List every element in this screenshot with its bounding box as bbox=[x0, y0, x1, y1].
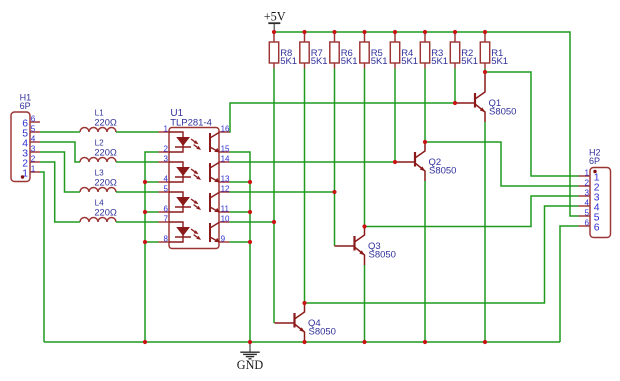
svg-text:2: 2 bbox=[164, 145, 169, 154]
junction R4/Q2 base bbox=[393, 160, 397, 164]
wire Q2 emitter to ground bus bbox=[424, 181, 426, 342]
U1 pin 1 stub bbox=[159, 131, 170, 133]
U1 channel 4 light arrows bbox=[191, 229, 201, 240]
wire L3 to U1.5 bbox=[116, 191, 159, 193]
H1 pin 1 stub bbox=[30, 171, 40, 173]
svg-text:3: 3 bbox=[31, 145, 36, 154]
U1 pin 7 stub bbox=[159, 221, 170, 223]
junction R6/Q3 base net bbox=[332, 190, 336, 194]
svg-text:S8050: S8050 bbox=[309, 327, 336, 338]
wire ground bus bbox=[44, 341, 560, 343]
H2 pin 3 stub bbox=[579, 195, 591, 197]
svg-text:1: 1 bbox=[31, 165, 36, 174]
wire U1.6 to cathode bus bbox=[145, 211, 159, 213]
wire U1.9 to emitter bus bbox=[230, 241, 251, 243]
svg-text:2: 2 bbox=[584, 179, 589, 188]
resistor R2 5K1 bbox=[450, 33, 459, 69]
transistor Q3 S8050 bbox=[335, 227, 365, 266]
junction rail-R4 bbox=[393, 30, 397, 34]
junction R2/Q1 base bbox=[453, 101, 457, 105]
junction ground bus Q1e bbox=[483, 340, 487, 344]
junction rail-R5 bbox=[362, 30, 366, 34]
svg-text:3: 3 bbox=[164, 155, 169, 164]
U1 pin 11 stub bbox=[219, 211, 230, 213]
transistor Q4 S8050 bbox=[275, 303, 305, 342]
svg-text:6: 6 bbox=[31, 115, 36, 124]
U1 channel 1 light arrows bbox=[191, 139, 201, 150]
svg-text:5K1: 5K1 bbox=[431, 56, 448, 67]
junction emitter bus pin11 bbox=[248, 210, 252, 214]
wire U1.8 to cathode bus bbox=[145, 241, 159, 243]
power +5V symbol bbox=[264, 9, 286, 32]
H1 pin 5 stub bbox=[30, 131, 40, 133]
resistor R8 5K1 bbox=[269, 33, 278, 69]
U1 pin 4 stub bbox=[159, 181, 170, 183]
U1 channel 4 phototransistor bbox=[210, 223, 220, 243]
inductor L3 220ohm bbox=[80, 188, 116, 193]
wire Q3 collector to H2 pin3 bbox=[365, 196, 579, 227]
svg-text:+5V: +5V bbox=[264, 9, 286, 23]
U1 pin 15 stub bbox=[219, 151, 230, 153]
junction cathode bus pin8 bbox=[143, 240, 147, 244]
svg-text:4: 4 bbox=[584, 199, 589, 208]
svg-text:16: 16 bbox=[221, 125, 230, 134]
connector H1 bbox=[11, 112, 30, 182]
wire R5 bottom to net bbox=[364, 69, 366, 227]
wire H1.1 to ground bus bbox=[40, 172, 44, 342]
U1 pin 10 stub bbox=[219, 221, 230, 223]
wire H1.5 to L1 bbox=[40, 131, 80, 133]
svg-text:5K1: 5K1 bbox=[311, 56, 328, 67]
wire Q4 emitter to ground bus stub bbox=[304, 341, 306, 343]
inductor L1 220ohm bbox=[80, 128, 116, 133]
wire U1.13 to emitter bus bbox=[230, 181, 251, 183]
svg-text:4: 4 bbox=[164, 175, 169, 184]
U1 pin 6 stub bbox=[159, 211, 170, 213]
svg-text:8: 8 bbox=[164, 235, 169, 244]
ground GND symbol bbox=[237, 342, 264, 372]
wire Q1 emitter to ground bus bbox=[484, 122, 486, 342]
svg-text:5K1: 5K1 bbox=[491, 56, 508, 67]
U1 channel 2 LED bbox=[169, 162, 191, 182]
wire R1 bottom to net bbox=[484, 69, 486, 73]
wire Q1 collector to H2 pin1 bbox=[485, 72, 579, 176]
svg-text:L3: L3 bbox=[95, 168, 105, 177]
svg-text:S8050: S8050 bbox=[369, 250, 396, 261]
svg-text:5K1: 5K1 bbox=[461, 56, 478, 67]
resistor R5 5K1 bbox=[360, 33, 369, 69]
resistor R3 5K1 bbox=[420, 33, 429, 69]
wire L1 to U1.1 bbox=[116, 131, 159, 133]
wire U1.14 to Q2 base pin bbox=[230, 161, 396, 163]
svg-text:L2: L2 bbox=[95, 138, 105, 147]
svg-text:5K1: 5K1 bbox=[401, 56, 418, 67]
svg-text:10: 10 bbox=[221, 215, 230, 224]
H2 pin 4 stub bbox=[579, 205, 591, 207]
svg-text:GND: GND bbox=[237, 358, 264, 372]
svg-text:TLP281-4: TLP281-4 bbox=[170, 118, 212, 129]
svg-text:11: 11 bbox=[221, 205, 230, 214]
U1 pin 9 stub bbox=[219, 241, 230, 243]
wire L4 to U1.7 bbox=[116, 221, 159, 223]
junction emitter bus pin9 bbox=[248, 240, 252, 244]
svg-text:220Ω: 220Ω bbox=[94, 207, 117, 217]
H1 pin1 marker bbox=[21, 175, 24, 178]
resistor R1 5K1 bbox=[480, 33, 489, 69]
wire H1.2 to L4 bbox=[40, 162, 80, 222]
junction rail-R3 bbox=[423, 30, 427, 34]
H1 pin 3 stub bbox=[30, 151, 40, 153]
U1 channel 3 phototransistor bbox=[210, 193, 220, 213]
svg-text:15: 15 bbox=[221, 145, 230, 154]
svg-text:S8050: S8050 bbox=[489, 107, 516, 118]
wire H1.3 to L3 bbox=[40, 152, 80, 192]
svg-text:L1: L1 bbox=[95, 108, 105, 117]
resistor R4 5K1 bbox=[390, 33, 399, 69]
svg-text:6: 6 bbox=[164, 205, 169, 214]
U1 pin 16 stub bbox=[219, 131, 230, 133]
U1 channel 1 phototransistor bbox=[210, 133, 220, 153]
svg-text:3: 3 bbox=[584, 189, 589, 198]
U1 pin 8 stub bbox=[159, 241, 170, 243]
U1 channel 3 LED bbox=[169, 192, 191, 212]
U1 pin 3 stub bbox=[159, 161, 170, 163]
junction rail-R2 bbox=[453, 30, 457, 34]
op-to U1 TLP281-4 body bbox=[169, 128, 219, 249]
U1 channel 2 light arrows bbox=[191, 169, 201, 180]
wire U1.4 to cathode bus bbox=[145, 181, 159, 183]
junction ground bus cathode bbox=[143, 340, 147, 344]
inductor L4 220ohm bbox=[80, 218, 116, 223]
resistor R6 5K1 bbox=[330, 33, 339, 69]
wire R2 bottom to net bbox=[454, 69, 456, 104]
junction R1/Q1 collector bbox=[483, 70, 487, 74]
wire H2 pin6 to ground bus bbox=[560, 226, 579, 342]
svg-text:9: 9 bbox=[221, 235, 226, 244]
junction R7/Q4 collector bbox=[302, 301, 306, 305]
wire U1 emitter bus to ground bbox=[230, 152, 251, 342]
H1 pin 2 stub bbox=[30, 161, 40, 163]
svg-text:14: 14 bbox=[221, 155, 230, 164]
junction R3/Q2 collector bbox=[423, 140, 427, 144]
wire Q2 collector to H2 pin2 bbox=[425, 142, 579, 186]
wire R8 bottom to net bbox=[273, 69, 275, 223]
H2 pin 2 stub bbox=[579, 185, 591, 187]
transistor Q1 S8050 bbox=[455, 72, 485, 122]
svg-text:5K1: 5K1 bbox=[371, 56, 388, 67]
junction ground bus Q3e bbox=[362, 340, 366, 344]
U1 pin 14 stub bbox=[219, 161, 230, 163]
wire H1.4 to L2 bbox=[40, 142, 80, 162]
wire R3 bottom to net bbox=[424, 69, 426, 143]
svg-text:220Ω: 220Ω bbox=[94, 177, 117, 187]
U1 pin 5 stub bbox=[159, 191, 170, 193]
svg-text:13: 13 bbox=[221, 175, 230, 184]
H2 pin1 marker bbox=[593, 170, 596, 173]
svg-text:5: 5 bbox=[164, 185, 169, 194]
wire U1.10 to Q4 base pin bbox=[230, 222, 275, 323]
svg-text:6P: 6P bbox=[20, 101, 31, 111]
wire U1.11 to emitter bus bbox=[230, 211, 251, 213]
wire U1.16 to Q1 base pin bbox=[230, 103, 456, 132]
junction rail-R8 bbox=[272, 30, 276, 34]
wire U1.12 to Q3 base pin bbox=[230, 192, 335, 246]
junction cathode bus pin6 bbox=[143, 210, 147, 214]
resistor R7 5K1 bbox=[300, 33, 309, 69]
U1 channel 4 LED bbox=[169, 222, 191, 242]
svg-text:220Ω: 220Ω bbox=[94, 117, 117, 127]
wire U1 cathode bus bbox=[145, 152, 159, 342]
U1 channel 1 LED bbox=[169, 132, 191, 152]
svg-text:220Ω: 220Ω bbox=[94, 147, 117, 157]
junction R8/U1 pin10 net bbox=[272, 220, 276, 224]
junction ground bus Q2e bbox=[423, 340, 427, 344]
wire Q3 emitter to ground bus bbox=[364, 265, 366, 342]
svg-text:1: 1 bbox=[584, 169, 589, 178]
junction rail-R7 bbox=[302, 30, 306, 34]
junction emitter bus pin13 bbox=[248, 180, 252, 184]
H2 pin 6 stub bbox=[579, 225, 591, 227]
inductor L2 220ohm bbox=[80, 158, 116, 163]
svg-text:6P: 6P bbox=[589, 156, 600, 166]
wire R7 bottom to net bbox=[304, 69, 306, 304]
H2 pin 1 stub bbox=[579, 175, 591, 177]
svg-text:4: 4 bbox=[31, 135, 36, 144]
U1 pin 13 stub bbox=[219, 181, 230, 183]
junction ground bus GND bbox=[248, 340, 252, 344]
U1 pin 2 stub bbox=[159, 151, 170, 153]
junction cathode bus pin4 bbox=[143, 180, 147, 184]
H1 pin 6 stub bbox=[30, 121, 40, 123]
connector H2 bbox=[590, 168, 611, 238]
U1 channel 2 phototransistor bbox=[210, 163, 220, 183]
svg-text:L4: L4 bbox=[95, 198, 105, 207]
H2 pin 5 stub bbox=[579, 215, 591, 217]
svg-text:5: 5 bbox=[584, 209, 589, 218]
wire Q4 collector to H2 pin4 bbox=[305, 206, 579, 303]
junction ground bus Q4e bbox=[302, 340, 306, 344]
svg-text:2: 2 bbox=[31, 155, 36, 164]
svg-text:6: 6 bbox=[594, 223, 600, 234]
svg-text:5: 5 bbox=[31, 125, 36, 134]
svg-text:7: 7 bbox=[164, 215, 169, 224]
svg-text:1: 1 bbox=[164, 125, 169, 134]
U1 channel 3 light arrows bbox=[191, 199, 201, 210]
U1 pin 12 stub bbox=[219, 191, 230, 193]
wire L2 to U1.3 bbox=[116, 161, 159, 163]
junction R5/Q3 collector bbox=[362, 224, 366, 228]
junction rail-R1 bbox=[483, 30, 487, 34]
svg-text:S8050: S8050 bbox=[429, 166, 456, 177]
svg-text:5K1: 5K1 bbox=[280, 56, 297, 67]
H1 pin 4 stub bbox=[30, 141, 40, 143]
svg-text:12: 12 bbox=[221, 185, 230, 194]
wire R6 bottom to net bbox=[334, 69, 336, 193]
wire +5V rail to H2 pin 5 bbox=[274, 32, 579, 216]
junction rail-R6 bbox=[332, 30, 336, 34]
svg-text:5K1: 5K1 bbox=[341, 56, 358, 67]
wire R4 bottom to net bbox=[394, 69, 396, 163]
svg-text:6: 6 bbox=[584, 219, 589, 228]
transistor Q2 S8050 bbox=[395, 142, 425, 181]
